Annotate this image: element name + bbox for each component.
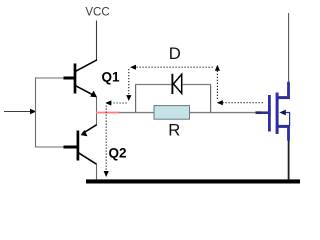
- source vertical: [287, 126, 290, 141]
- resistor R: [154, 106, 190, 120]
- wire to Q2 base: [35, 146, 65, 148]
- wire D-branch top left: [135, 84, 172, 86]
- transistor Q2: [64, 125, 97, 165]
- Q1 emitter arrowhead: [90, 91, 97, 98]
- dashed right vertical (diode loop): [216, 71, 218, 100]
- wire input to bases (vertical): [35, 78, 37, 148]
- svg-text:VCC: VCC: [85, 6, 109, 18]
- body arrowhead: [279, 110, 286, 116]
- body connection: [285, 113, 290, 127]
- drain stub: [277, 96, 290, 99]
- diode D: [172, 74, 181, 94]
- gate lead: [256, 111, 271, 114]
- ground bar: [86, 179, 300, 183]
- Q2 emitter arrowhead (PNP, points toward base bar): [81, 130, 88, 136]
- node input arrowhead: [30, 109, 36, 115]
- svg-text:D: D: [169, 44, 181, 63]
- wire Q1 emitter to node: [96, 98, 98, 126]
- wire VCC to Q1 collector: [96, 21, 98, 61]
- source stub: [277, 125, 290, 128]
- wire input stub: [4, 111, 31, 113]
- node red segment (gate drive output): [96, 112, 119, 114]
- dashed current paths: [106, 67, 263, 171]
- channel bar: [276, 93, 279, 135]
- svg-text:R: R: [168, 121, 180, 140]
- svg-text:Q1: Q1: [102, 69, 121, 84]
- wire D-branch top right: [182, 84, 211, 86]
- dashed arrowhead left (top): [130, 65, 136, 70]
- dashed arrowhead down (left loop bottom): [126, 95, 131, 101]
- dashed lower-right horizontal (from gate): [223, 102, 264, 104]
- dashed left vertical (diode loop): [128, 69, 130, 96]
- wire to Q1 base: [35, 77, 65, 79]
- transistor Q1: [64, 60, 98, 95]
- gate lead dark joint: [256, 111, 262, 114]
- dashed arrowhead up (right loop corner): [215, 65, 220, 71]
- dashed arrowhead left (mid left): [105, 100, 111, 105]
- MOSFET U1 (blue): [256, 82, 290, 141]
- dashed arrowhead down (to ground): [104, 171, 109, 177]
- dashed lower-left horizontal: [111, 102, 128, 104]
- svg-text:Q2: Q2: [109, 145, 127, 160]
- dashed long left vertical to ground: [105, 106, 107, 172]
- wire source to ground: [288, 140, 290, 180]
- wire main gate line: [119, 112, 258, 114]
- wire Q2 collector to ground: [96, 164, 98, 180]
- wire D-branch left vertical: [135, 85, 137, 113]
- wire D-branch right vertical: [210, 85, 212, 113]
- dashed top horizontal: [137, 66, 214, 68]
- drain vertical: [287, 82, 290, 99]
- dashed arrowhead left (mid right): [217, 100, 223, 105]
- gate bar: [268, 95, 271, 132]
- wire drain up: [288, 13, 290, 82]
